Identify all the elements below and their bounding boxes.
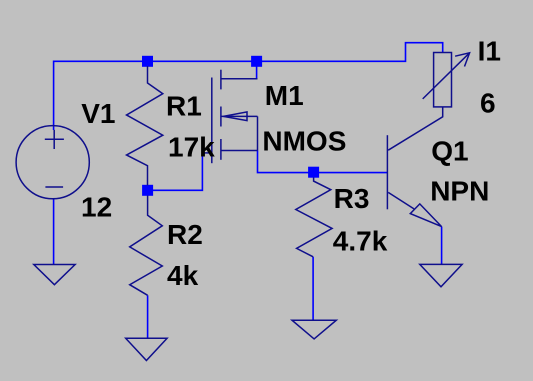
M1 gate lead: [202, 152, 211, 154]
M1 bulk arrow: [223, 112, 247, 121]
svg-text:NMOS: NMOS: [262, 125, 346, 156]
svg-text:V1: V1: [81, 98, 115, 129]
wire J2 to M1 drain: [256, 61, 258, 79]
resistor R3: [296, 178, 332, 257]
M1 drain lead: [221, 78, 258, 80]
wire V1 minus to ground: [53, 199, 55, 265]
svg-text:Q1: Q1: [431, 135, 468, 166]
svg-text:R1: R1: [166, 90, 202, 121]
ground below R3: [292, 320, 336, 339]
transistor Q1 base bar: [386, 135, 388, 209]
voltage source V1 circle: [16, 126, 89, 199]
svg-text:6: 6: [480, 87, 496, 118]
V1 minus sign: [45, 186, 63, 188]
svg-text:4.7k: 4.7k: [333, 226, 388, 257]
wire R1/R2 junction to M1 gate: [148, 153, 203, 190]
resistor R2: [130, 196, 163, 296]
wire R2 bottom to ground: [147, 295, 149, 338]
svg-text:M1: M1: [265, 80, 304, 111]
resistor R1: [127, 66, 163, 186]
Q1 collector lead and diagonal: [388, 107, 443, 150]
I1 arrow line: [423, 53, 470, 99]
M1 bulk-source vertical: [257, 116, 259, 150]
wire Q1 emitter to ground: [441, 227, 443, 265]
Q1 emitter arrow: [410, 204, 441, 227]
Q1 emitter diagonal: [388, 192, 414, 209]
svg-text:NPN: NPN: [430, 175, 489, 206]
current source I1 box: [434, 53, 452, 107]
svg-text:12: 12: [81, 192, 112, 223]
svg-text:R2: R2: [167, 219, 203, 250]
node junction J1 rail/R1: [142, 56, 153, 67]
ground below V1: [34, 265, 75, 285]
node junction J4 base wire/R3: [308, 167, 319, 178]
V1 plus sign: [45, 130, 64, 149]
wire V1 top to rail, top rail, step to I1: [54, 43, 443, 130]
wire R3 bottom to ground: [312, 257, 314, 320]
svg-text:R3: R3: [334, 183, 370, 214]
M1 bulk channel bar: [220, 107, 222, 127]
svg-text:17k: 17k: [168, 131, 215, 162]
M1 source channel bar: [220, 139, 222, 160]
node junction J2 rail/M1 drain: [251, 56, 262, 67]
wire M1 source to Q1 base: [258, 151, 388, 173]
svg-text:I1: I1: [478, 35, 501, 66]
I1 arrow head: [455, 53, 470, 67]
transistor M1 gate bar: [211, 78, 213, 164]
node junction J3 R1/R2/gate: [142, 185, 153, 196]
M1 drain channel bar: [220, 70, 222, 90]
svg-text:4k: 4k: [167, 260, 199, 291]
ground below Q1: [420, 264, 462, 286]
M1 source lead: [221, 150, 258, 152]
ground below R2: [126, 338, 167, 360]
M1 bulk lead: [221, 115, 258, 117]
